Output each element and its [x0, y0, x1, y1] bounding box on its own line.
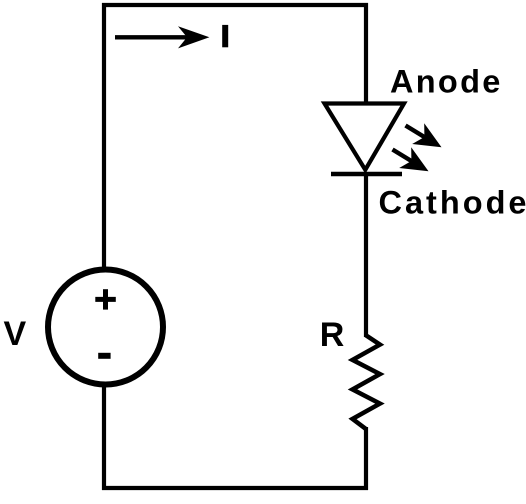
LED light arrow 1 [406, 123, 442, 147]
svg-text:Cathode: Cathode [379, 185, 526, 221]
wire: left vertical lower [102, 384, 106, 490]
LED D1: wire right vertical upper [364, 3, 368, 104]
svg-text:V: V [4, 315, 27, 353]
current arrow I [115, 26, 209, 48]
plus symbol [95, 289, 116, 309]
voltage source V1 circle [48, 270, 163, 385]
label I [222, 25, 228, 47]
minus symbol [98, 353, 110, 359]
wire: right vertical middle (cathode to resistor) [364, 172, 368, 337]
wire: bottom horizontal [102, 486, 368, 490]
svg-text:Anode: Anode [390, 64, 503, 100]
LED D1: triangle (anode) [325, 104, 405, 170]
wire: right vertical lower [364, 427, 368, 490]
LED light arrow 2 [393, 147, 429, 171]
svg-text:R: R [320, 316, 345, 354]
wire: top horizontal [102, 3, 368, 7]
wire: left vertical upper [102, 3, 106, 270]
resistor R zigzag [353, 335, 381, 429]
LED D1: cathode bar [331, 172, 402, 176]
